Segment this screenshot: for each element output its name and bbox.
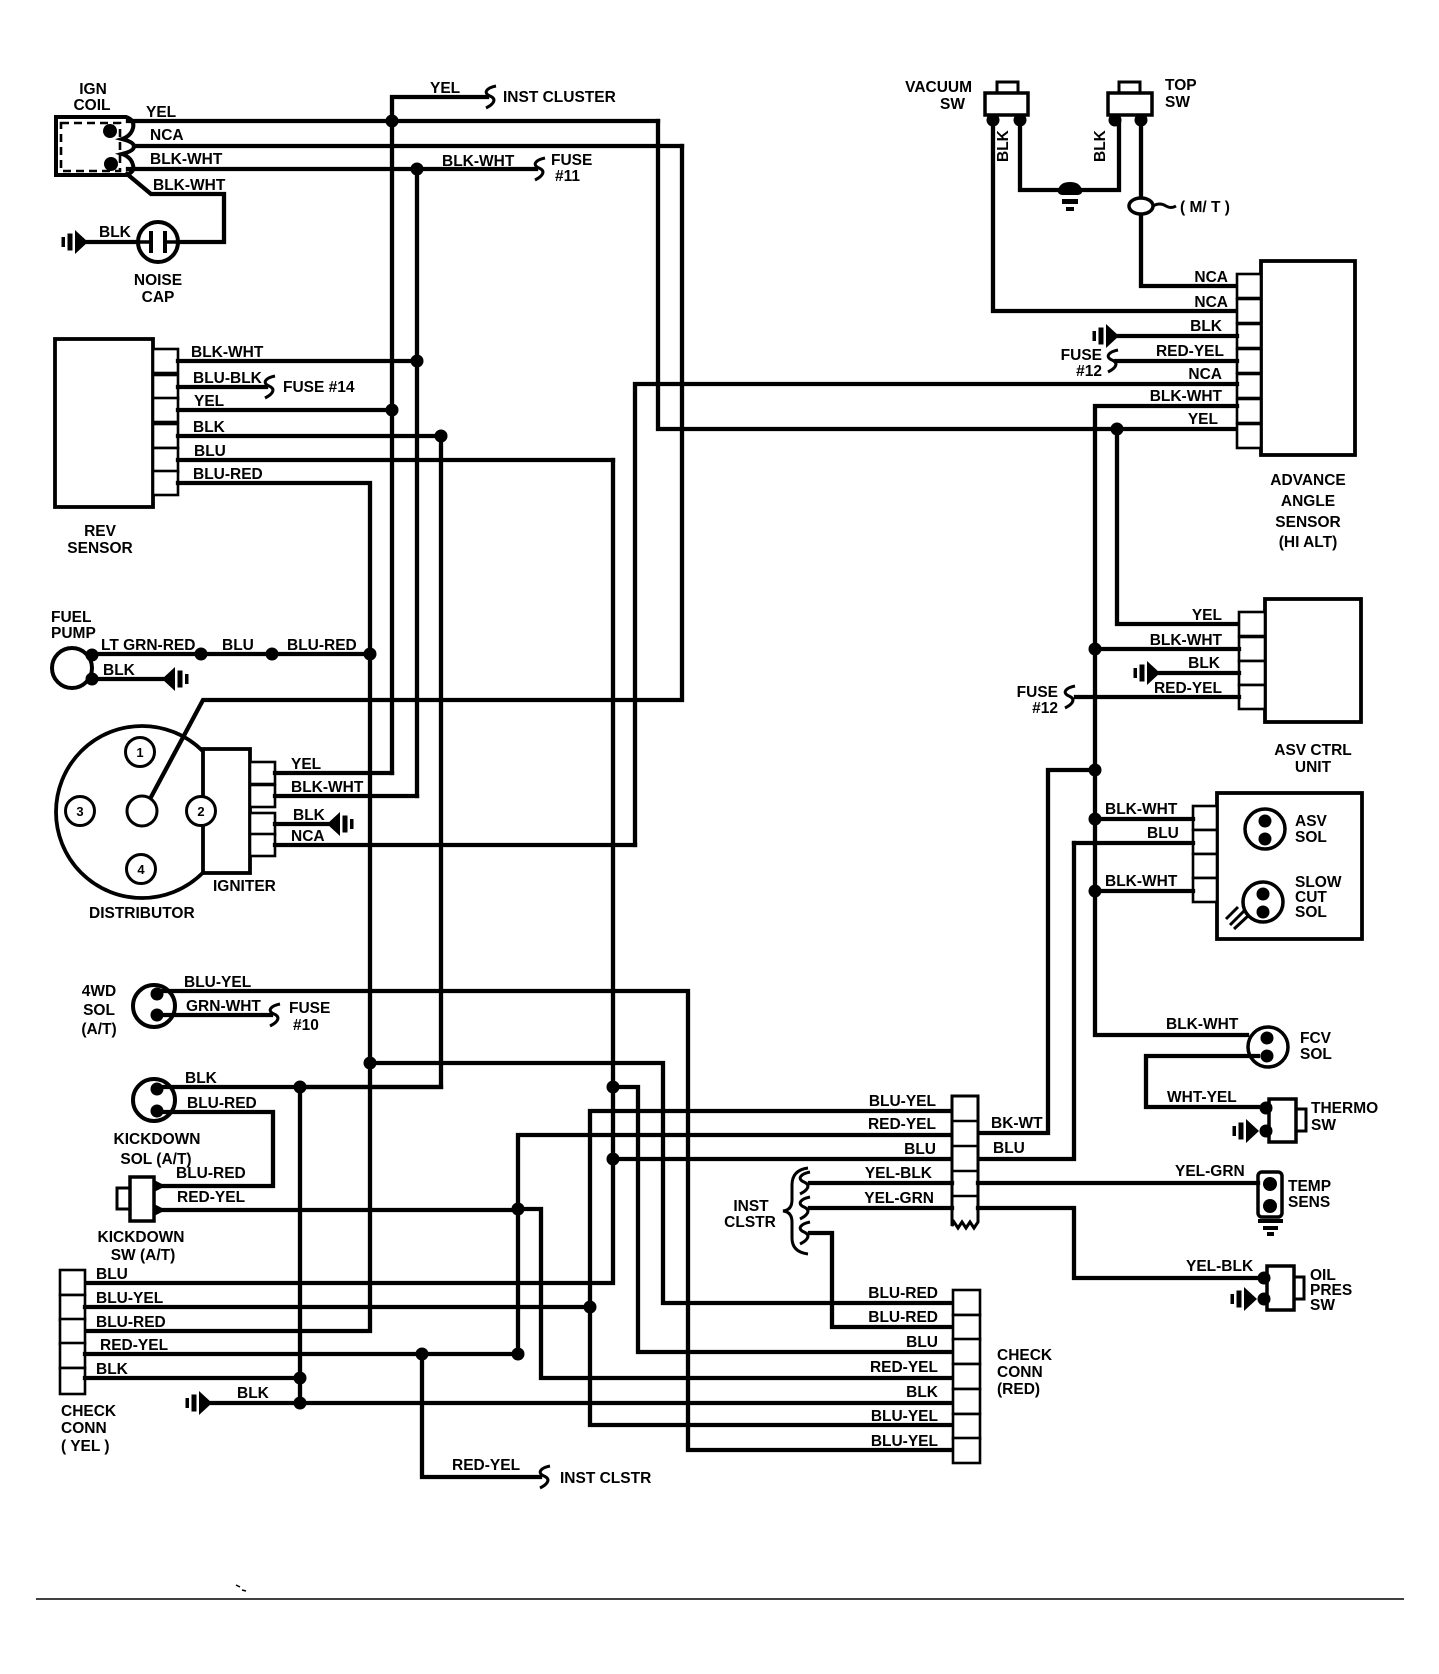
svg-text:SOL: SOL bbox=[83, 1002, 115, 1019]
svg-text:YEL: YEL bbox=[291, 756, 321, 773]
distributor center terminal bbox=[127, 796, 157, 826]
wire BLK rev sensor bbox=[178, 434, 441, 438]
svg-text:BLK: BLK bbox=[96, 1361, 129, 1378]
svg-text:RED-YEL: RED-YEL bbox=[1154, 680, 1222, 697]
wire BLK check conn yel bbox=[85, 1376, 300, 1380]
svg-text:CAP: CAP bbox=[142, 289, 175, 306]
igniter pin 3 bbox=[250, 813, 275, 835]
asv box pin 1 bbox=[1193, 806, 1217, 830]
kickdown sol pin bottom bbox=[151, 1105, 164, 1118]
fuse #12 top bbox=[1108, 350, 1118, 372]
svg-text:CLSTR: CLSTR bbox=[724, 1214, 776, 1231]
wire BLU trunk x613 bbox=[85, 460, 613, 1283]
svg-text:FUSE #14: FUSE #14 bbox=[283, 379, 355, 396]
svg-text:CHECK: CHECK bbox=[997, 1347, 1053, 1364]
svg-text:BLK-WHT: BLK-WHT bbox=[1105, 801, 1178, 818]
rev sensor pin 2 bbox=[153, 375, 178, 399]
wire BLK-WHT igniter bbox=[275, 794, 417, 798]
svg-text:#10: #10 bbox=[293, 1017, 319, 1034]
asv ctrl unit pin 2 bbox=[1239, 637, 1265, 661]
svg-text:BLU: BLU bbox=[993, 1140, 1025, 1157]
wire BLU-RED kickdown sol to kickdown sw bbox=[158, 1112, 273, 1186]
node junction BLK-WHT x1095 bkwt bbox=[1089, 764, 1102, 777]
svg-text:SW: SW bbox=[1311, 1117, 1336, 1134]
asv box pin 2 bbox=[1193, 830, 1217, 854]
svg-text:IGN: IGN bbox=[79, 81, 107, 98]
svg-text:RED-YEL: RED-YEL bbox=[100, 1337, 168, 1354]
wire BLK to noise cap bbox=[88, 240, 138, 244]
svg-text:YEL: YEL bbox=[194, 393, 224, 410]
svg-text:YEL-BLK: YEL-BLK bbox=[1186, 1258, 1254, 1275]
advance angle sensor pin 6 bbox=[1237, 399, 1261, 423]
wire BLU branch x638 to check conn red bbox=[613, 1087, 953, 1352]
rev sensor pin 5 bbox=[153, 448, 178, 472]
kickdown sol bbox=[133, 1079, 175, 1121]
svg-text:RED-YEL: RED-YEL bbox=[868, 1116, 936, 1133]
svg-text:4WD: 4WD bbox=[82, 983, 116, 1000]
ground noise cap bbox=[62, 230, 89, 254]
node junction BLK-WHT x417 bbox=[411, 163, 424, 176]
advance angle sensor pin 3 bbox=[1237, 324, 1261, 348]
svg-text:BLU: BLU bbox=[1147, 825, 1179, 842]
ground thermo sw bbox=[1233, 1119, 1260, 1143]
wire YEL trunk x658 bbox=[658, 121, 1237, 429]
svg-text:THERMO: THERMO bbox=[1311, 1100, 1378, 1117]
node splice 2 bbox=[266, 648, 279, 661]
kickdown sw pin bottom bbox=[154, 1204, 166, 1216]
svg-text:FCV: FCV bbox=[1300, 1030, 1332, 1047]
kickdown sw bbox=[130, 1177, 154, 1221]
svg-text:NCA: NCA bbox=[291, 828, 325, 845]
wire BLU asv sol bbox=[1074, 841, 1193, 845]
vacuum sw bbox=[985, 93, 1028, 115]
wire NCA top sw to sensor bbox=[1141, 120, 1237, 286]
asv ctrl unit pin 1 bbox=[1239, 612, 1265, 636]
svg-text:BLU: BLU bbox=[96, 1266, 128, 1283]
svg-text:BLU: BLU bbox=[194, 443, 226, 460]
wire NCA igniter to sensor bbox=[635, 384, 1237, 845]
svg-text:YEL: YEL bbox=[1192, 607, 1222, 624]
ground fuel pump bbox=[162, 667, 189, 691]
svg-text:INST: INST bbox=[733, 1198, 769, 1215]
svg-text:BLU-RED: BLU-RED bbox=[868, 1309, 938, 1326]
ground advance angle sensor bbox=[1093, 324, 1120, 348]
svg-text:SENSOR: SENSOR bbox=[1275, 514, 1340, 531]
vacuum sw pin right bbox=[1014, 114, 1027, 127]
wire YEL rev sensor bbox=[178, 408, 392, 412]
svg-text:NCA: NCA bbox=[1188, 366, 1222, 383]
wire BLU trunk x1074 bbox=[978, 843, 1074, 1159]
svg-text:VACUUM: VACUUM bbox=[905, 79, 972, 96]
wire BLU-RED trunk x370 bbox=[85, 654, 370, 1331]
kickdown sol pin top bbox=[151, 1083, 164, 1096]
svg-text:BLU-RED: BLU-RED bbox=[193, 466, 263, 483]
svg-text:IGNITER: IGNITER bbox=[213, 878, 276, 895]
svg-text:BLK-WHT: BLK-WHT bbox=[1166, 1016, 1239, 1033]
asv box pin 3 bbox=[1193, 854, 1217, 878]
svg-text:INST CLSTR: INST CLSTR bbox=[560, 1470, 651, 1487]
advance angle sensor pin 7 bbox=[1237, 424, 1261, 448]
rev sensor pin 3 bbox=[153, 398, 178, 422]
wire BLK-WHT trunk x417 bbox=[415, 169, 419, 796]
svg-text:SENSOR: SENSOR bbox=[67, 540, 132, 557]
svg-text:YEL: YEL bbox=[1188, 411, 1218, 428]
temp sens bbox=[1258, 1172, 1282, 1217]
asv box pin 4 bbox=[1193, 878, 1217, 902]
svg-text:BLU-RED: BLU-RED bbox=[187, 1095, 257, 1112]
check conn red pin 1 bbox=[953, 1290, 980, 1315]
wire BLU-RED branch x663 to check conn red bbox=[370, 1063, 953, 1303]
svg-text:WHT-YEL: WHT-YEL bbox=[1167, 1089, 1237, 1106]
wire ground link vacuum top sw bbox=[1020, 120, 1119, 190]
rev sensor pin 6 bbox=[153, 471, 178, 495]
oil pres sw pin bottom bbox=[1258, 1293, 1271, 1306]
kickdown sw pin top bbox=[154, 1180, 166, 1192]
check conn yel pin 4 bbox=[60, 1343, 85, 1368]
svg-text:(A/T): (A/T) bbox=[81, 1021, 116, 1038]
svg-text:FUEL: FUEL bbox=[51, 609, 91, 626]
check conn red pin 4 bbox=[953, 1364, 980, 1389]
wire WHT-YEL fcv to thermo bbox=[1146, 1056, 1258, 1107]
wire YEL-BLK inst clstr bbox=[810, 1181, 952, 1185]
svg-text:BLU-RED: BLU-RED bbox=[96, 1314, 166, 1331]
svg-text:BLK: BLK bbox=[99, 224, 132, 241]
wire YEL-GRN inst clstr bbox=[810, 1206, 952, 1210]
vacuum sw pin left bbox=[987, 114, 1000, 127]
node junction RED-YEL x518 bottom bbox=[512, 1348, 525, 1361]
svg-text:REV: REV bbox=[84, 523, 117, 540]
svg-text:RED-YEL: RED-YEL bbox=[452, 1457, 520, 1474]
wire RED-YEL branch x541 to check conn red bbox=[518, 1209, 953, 1378]
wire NCA vacuum sw to sensor bbox=[993, 120, 1237, 311]
svg-text:BLK-WHT: BLK-WHT bbox=[153, 177, 226, 194]
wire BLU-RED rev sensor bbox=[178, 483, 370, 654]
fuse #10 bbox=[270, 1004, 280, 1026]
svg-text:#11: #11 bbox=[555, 168, 580, 185]
wire BLU-YEL check conn yel bbox=[85, 1305, 590, 1309]
svg-text:ASV CTRL: ASV CTRL bbox=[1274, 742, 1352, 759]
svg-text:BK-WT: BK-WT bbox=[991, 1115, 1043, 1132]
4wd sol pin bottom bbox=[151, 1009, 164, 1022]
svg-text:COIL: COIL bbox=[73, 97, 110, 114]
svg-text:BLU: BLU bbox=[904, 1141, 936, 1158]
fuse #14 bbox=[265, 376, 275, 398]
fuse #11 bbox=[535, 158, 545, 180]
fcv sol bbox=[1248, 1027, 1288, 1067]
svg-text:BLK-WHT: BLK-WHT bbox=[1150, 388, 1223, 405]
node junction RED-YEL x518 bbox=[512, 1203, 525, 1216]
wire RED-YEL asv ctrl to fuse 12 bbox=[1076, 695, 1239, 699]
ground temp sens bbox=[1258, 1221, 1283, 1234]
svg-text:BLU-YEL: BLU-YEL bbox=[871, 1433, 938, 1450]
svg-text:FUSE: FUSE bbox=[1017, 684, 1058, 701]
svg-text:BLK-WHT: BLK-WHT bbox=[150, 151, 223, 168]
asv ctrl unit pin 3 bbox=[1239, 661, 1265, 685]
svg-text:BLK-WHT: BLK-WHT bbox=[1150, 632, 1223, 649]
svg-text:BLK: BLK bbox=[1188, 655, 1221, 672]
connector bubble M/T bbox=[1129, 198, 1153, 214]
svg-text:NCA: NCA bbox=[1194, 294, 1228, 311]
advance angle sensor pin 5 bbox=[1237, 374, 1261, 398]
svg-text:2: 2 bbox=[197, 804, 204, 819]
node junction BLK x441 bbox=[435, 430, 448, 443]
svg-text:GRN-WHT: GRN-WHT bbox=[186, 998, 261, 1015]
svg-text:YEL-GRN: YEL-GRN bbox=[864, 1190, 934, 1207]
node junction BLK-WHT x1095 asv sol bbox=[1089, 813, 1102, 826]
svg-text:CONN: CONN bbox=[997, 1364, 1043, 1381]
fuse #12 bottom bbox=[1065, 686, 1075, 708]
svg-text:#12: #12 bbox=[1076, 363, 1102, 380]
svg-text:BLK: BLK bbox=[185, 1070, 218, 1087]
svg-text:BLU: BLU bbox=[222, 637, 254, 654]
wire BLK-WHT coil to noise cap bbox=[127, 174, 224, 242]
svg-text:SOL: SOL bbox=[1295, 829, 1327, 846]
svg-text:YEL: YEL bbox=[430, 80, 460, 97]
wire BLK ground to check conn red bbox=[212, 1401, 953, 1405]
node junction YEL x392 bbox=[386, 115, 399, 128]
wire BLK-WHT asv ctrl bbox=[1095, 647, 1239, 651]
wire BLK fuel pump to ground bbox=[92, 677, 162, 681]
distributor terminal 1 bbox=[126, 738, 155, 767]
svg-text:BLK: BLK bbox=[193, 419, 226, 436]
svg-text:KICKDOWN: KICKDOWN bbox=[98, 1229, 185, 1246]
svg-text:BLU-YEL: BLU-YEL bbox=[96, 1290, 163, 1307]
svg-text:ASV: ASV bbox=[1295, 813, 1328, 830]
oil pres sw bbox=[1267, 1266, 1294, 1310]
node junction RED-YEL x422 bbox=[416, 1348, 429, 1361]
svg-text:TOP: TOP bbox=[1165, 77, 1197, 94]
igniter pin 2 bbox=[250, 785, 275, 807]
wire RED-YEL branch down x518 bbox=[516, 1209, 520, 1354]
svg-text:KICKDOWN: KICKDOWN bbox=[114, 1131, 201, 1148]
top sw bbox=[1108, 93, 1152, 115]
wire NCA coil to distributor center bbox=[150, 146, 682, 799]
wire YEL down to asv ctrl bbox=[1117, 429, 1239, 624]
thermo sw pin top bbox=[1260, 1102, 1273, 1115]
svg-text:SW: SW bbox=[1310, 1297, 1335, 1314]
svg-text:SW: SW bbox=[940, 96, 965, 113]
svg-text:PUMP: PUMP bbox=[51, 625, 96, 642]
ground oil pres sw bbox=[1231, 1287, 1258, 1311]
fuel pump pin bottom bbox=[86, 673, 99, 686]
wire YEL igniter bbox=[275, 771, 392, 775]
rev sensor pin 4 bbox=[153, 424, 178, 448]
svg-text:BLU-YEL: BLU-YEL bbox=[869, 1093, 936, 1110]
svg-text:( M/ T ): ( M/ T ) bbox=[1180, 199, 1230, 216]
node junction BLU-RED x370 bbox=[364, 648, 377, 661]
wire NCA igniter bbox=[275, 843, 635, 847]
asv slow cut sol box bbox=[1217, 793, 1362, 939]
check conn red pin 5 bbox=[953, 1389, 980, 1414]
svg-text:NCA: NCA bbox=[150, 127, 184, 144]
node junction YEL x1117 bbox=[1111, 423, 1124, 436]
svg-text:SW: SW bbox=[1165, 94, 1190, 111]
wire BLK asv ctrl to ground bbox=[1160, 671, 1239, 675]
igniter pin 1 bbox=[250, 762, 275, 784]
node junction BLK x300 bbox=[294, 1081, 307, 1094]
svg-text:YEL-BLK: YEL-BLK bbox=[865, 1165, 933, 1182]
rev sensor pin 1 bbox=[153, 349, 178, 373]
wire YEL-GRN strip to temp sens bbox=[978, 1181, 1258, 1185]
check conn yel pin 3 bbox=[60, 1319, 85, 1344]
wire BLU rev sensor bbox=[178, 458, 613, 462]
4wd sol bbox=[133, 985, 175, 1027]
svg-text:BLK-WHT: BLK-WHT bbox=[291, 779, 364, 796]
fuel pump pin top bbox=[86, 649, 99, 662]
node junction BLK-WHT x1095 asv ctrl bbox=[1089, 643, 1102, 656]
svg-text:SOL: SOL bbox=[1300, 1046, 1332, 1063]
advance angle sensor pin 2 bbox=[1237, 299, 1261, 323]
node junction BLK x300 yel conn bbox=[294, 1372, 307, 1385]
node junction BLK-WHT x1095 slow cut bbox=[1089, 885, 1102, 898]
thermo sw pin bottom bbox=[1260, 1125, 1273, 1138]
wire LT GRN-RED BLU BLU-RED fuel pump bbox=[92, 652, 370, 656]
svg-text:BLK: BLK bbox=[1190, 318, 1223, 335]
wire BLK-WHT rev sensor bbox=[178, 359, 417, 363]
distributor terminal 4 bbox=[127, 855, 156, 884]
svg-text:TEMP: TEMP bbox=[1288, 1178, 1331, 1195]
svg-text:4: 4 bbox=[137, 862, 145, 877]
svg-text:BLK: BLK bbox=[995, 129, 1012, 162]
svg-text:SW (A/T): SW (A/T) bbox=[111, 1247, 176, 1264]
wire NCA from ign coil bbox=[134, 144, 682, 148]
thermo sw bbox=[1269, 1099, 1296, 1142]
inst clstr connector bbox=[952, 1096, 978, 1228]
wire BLK-WHT from ign coil to fuse 11 bbox=[128, 167, 536, 171]
node junction BLU-YEL x590 bbox=[584, 1301, 597, 1314]
speck bbox=[236, 1585, 246, 1591]
node junction BLK-WHT x417 rev bbox=[411, 355, 424, 368]
svg-text:3: 3 bbox=[76, 804, 83, 819]
check conn yel pin 1 bbox=[60, 1270, 85, 1295]
svg-text:BLK-WHT: BLK-WHT bbox=[1105, 873, 1178, 890]
svg-text:BLK-WHT: BLK-WHT bbox=[191, 344, 264, 361]
svg-text:BLK: BLK bbox=[237, 1385, 270, 1402]
wire BLK-WHT slow cut sol bbox=[1095, 889, 1193, 893]
ign coil terminal top bbox=[103, 124, 117, 138]
wire BLK-WHT asv sol bbox=[1095, 817, 1193, 821]
wire BK-WT branch bbox=[978, 770, 1095, 1133]
ground vacuum top sw bbox=[1058, 182, 1082, 211]
check conn red pin 7 bbox=[953, 1438, 980, 1463]
wire BLK branch x300 down bbox=[298, 1087, 302, 1403]
wire BLK trunk x441 bbox=[300, 436, 441, 1087]
svg-text:FUSE: FUSE bbox=[289, 1000, 330, 1017]
fuel pump bbox=[52, 648, 92, 688]
svg-text:#12: #12 bbox=[1032, 700, 1058, 717]
wire BLK sensor to ground bbox=[1119, 334, 1237, 338]
svg-text:BLU-YEL: BLU-YEL bbox=[184, 974, 251, 991]
svg-text:(RED): (RED) bbox=[997, 1381, 1040, 1398]
svg-text:LT GRN-RED: LT GRN-RED bbox=[101, 637, 195, 654]
svg-text:BLU: BLU bbox=[906, 1334, 938, 1351]
svg-text:CONN: CONN bbox=[61, 1420, 107, 1437]
check conn red pin 3 bbox=[953, 1339, 980, 1364]
wire BLU branch to strip conn bbox=[613, 1157, 952, 1161]
check conn red pin 2 bbox=[953, 1315, 980, 1340]
svg-text:1: 1 bbox=[136, 745, 143, 760]
wire RED-YEL to inst clstr bottom bbox=[422, 1354, 540, 1477]
wire RED-YEL up to strip conn bbox=[518, 1135, 952, 1209]
svg-text:BLK: BLK bbox=[1092, 129, 1109, 162]
check conn yel pin 2 bbox=[60, 1295, 85, 1320]
distributor terminal 2 bbox=[187, 797, 216, 826]
wire RED-YEL kickdown sw bbox=[160, 1208, 518, 1212]
node junction BLK x300 ground bbox=[294, 1397, 307, 1410]
svg-text:( YEL ): ( YEL ) bbox=[61, 1438, 110, 1455]
advance angle sensor pin 1 bbox=[1237, 274, 1261, 298]
node splice 1 bbox=[195, 648, 208, 661]
fuse tail inst clstr bottom bbox=[540, 1466, 550, 1488]
fuse tail inst cluster bbox=[486, 86, 496, 108]
svg-text:RED-YEL: RED-YEL bbox=[177, 1189, 245, 1206]
wire RED-YEL check conn yel bbox=[85, 1352, 518, 1356]
svg-text:BLU-RED: BLU-RED bbox=[868, 1285, 938, 1302]
wire BLU-BLK rev sensor to fuse 14 bbox=[178, 385, 266, 389]
wire BLU-YEL chain x590 bbox=[590, 1111, 953, 1425]
wire BLK kickdown sol bbox=[160, 1085, 441, 1089]
asv sol bbox=[1245, 809, 1285, 849]
svg-text:RED-YEL: RED-YEL bbox=[1156, 343, 1224, 360]
node junction BLU x613 strip bbox=[607, 1153, 620, 1166]
wire BLU-YEL 4wd sol bbox=[160, 991, 953, 1450]
svg-text:DISTRIBUTOR: DISTRIBUTOR bbox=[89, 905, 195, 922]
svg-text:NOISE: NOISE bbox=[134, 272, 182, 289]
svg-text:YEL-GRN: YEL-GRN bbox=[1175, 1163, 1245, 1180]
svg-text:INST CLUSTER: INST CLUSTER bbox=[503, 89, 616, 106]
svg-text:FUSE: FUSE bbox=[1061, 347, 1102, 364]
svg-text:BLK-WHT: BLK-WHT bbox=[442, 153, 515, 170]
svg-text:BLU-YEL: BLU-YEL bbox=[871, 1408, 938, 1425]
svg-text:BLK: BLK bbox=[906, 1384, 939, 1401]
asv ctrl unit pin 4 bbox=[1239, 685, 1265, 709]
svg-text:(HI ALT): (HI ALT) bbox=[1279, 534, 1338, 551]
node junction BLU x613 kick bbox=[607, 1081, 620, 1094]
wire BLK igniter to ground bbox=[275, 822, 327, 826]
svg-text:SOL: SOL bbox=[1295, 904, 1327, 921]
svg-text:RED-YEL: RED-YEL bbox=[870, 1359, 938, 1376]
igniter pin 4 bbox=[250, 834, 275, 856]
rev sensor bbox=[55, 339, 153, 507]
check conn red pin 6 bbox=[953, 1414, 980, 1439]
asv ctrl unit bbox=[1265, 599, 1361, 722]
node junction BLU-RED x370 top bbox=[364, 1057, 377, 1070]
svg-text:FUSE: FUSE bbox=[551, 152, 592, 169]
wire RED-YEL sensor to fuse 12 bbox=[1116, 359, 1237, 363]
distributor bbox=[56, 726, 228, 898]
svg-text:UNIT: UNIT bbox=[1295, 759, 1332, 776]
check conn yel pin 5 bbox=[60, 1368, 85, 1394]
4wd sol pin top bbox=[151, 988, 164, 1001]
top sw pin left bbox=[1109, 114, 1122, 127]
wire inst clstr third tail bbox=[810, 1233, 953, 1327]
svg-text:ANGLE: ANGLE bbox=[1281, 493, 1335, 510]
advance angle sensor bbox=[1261, 261, 1355, 455]
oil pres sw pin top bbox=[1258, 1272, 1271, 1285]
svg-text:BLU-RED: BLU-RED bbox=[287, 637, 357, 654]
noise cap C1 bbox=[138, 222, 178, 262]
ground asv ctrl bbox=[1134, 661, 1161, 685]
top sw pin right bbox=[1135, 114, 1148, 127]
svg-text:SENS: SENS bbox=[1288, 1194, 1330, 1211]
wire YEL from ign coil bbox=[128, 119, 658, 123]
svg-text:NCA: NCA bbox=[1194, 269, 1228, 286]
svg-text:BLU-BLK: BLU-BLK bbox=[193, 370, 263, 387]
svg-text:CHECK: CHECK bbox=[61, 1403, 117, 1420]
wire YEL trunk x392 bbox=[390, 121, 394, 773]
svg-text:ADVANCE: ADVANCE bbox=[1270, 472, 1346, 489]
ground igniter bbox=[327, 812, 354, 836]
